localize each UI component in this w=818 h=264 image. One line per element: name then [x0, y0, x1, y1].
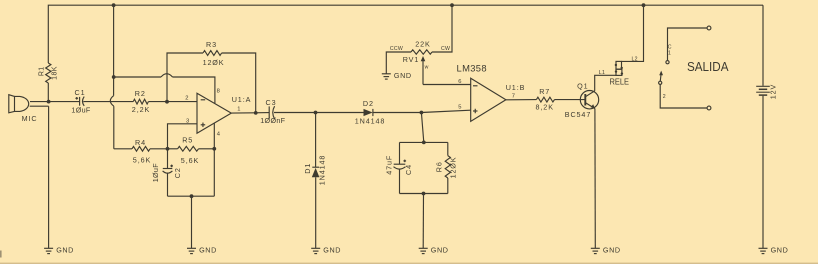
svg-text:MIC: MIC — [22, 114, 38, 123]
resistor R5 5,6K — [168, 136, 215, 165]
svg-text:D1: D1 — [303, 163, 312, 174]
transistor Q1 BC547 — [565, 81, 599, 118]
ground (filter) — [419, 246, 449, 255]
svg-text:R1: R1 — [38, 66, 45, 76]
node top rail at relay — [642, 3, 646, 7]
svg-text:C2: C2 — [173, 167, 182, 178]
svg-text:8: 8 — [217, 88, 220, 94]
svg-text:12ØK: 12ØK — [448, 157, 457, 179]
battery 12V — [756, 84, 777, 100]
svg-text:BC547: BC547 — [565, 110, 591, 119]
svg-text:12ØK: 12ØK — [203, 58, 225, 67]
svg-text:GND: GND — [603, 246, 621, 255]
wire op-amp B output to R7 — [506, 99, 537, 101]
node V+ drop / pin8 branch — [112, 75, 116, 79]
wire battery to ground — [762, 96, 764, 249]
svg-text:CCW: CCW — [390, 46, 403, 52]
svg-text:2,2K: 2,2K — [132, 105, 150, 114]
svg-text:3: 3 — [186, 119, 189, 125]
microphone MIC — [9, 95, 49, 123]
svg-text:22K: 22K — [415, 40, 431, 49]
wire emitter to ground — [594, 109, 596, 249]
svg-text:5,6K: 5,6K — [133, 156, 151, 165]
node top rail at V+ drop — [112, 3, 116, 7]
svg-text:RELE: RELE — [610, 78, 630, 87]
svg-text:GND: GND — [771, 246, 789, 255]
svg-text:R7: R7 — [539, 87, 550, 96]
potentiometer RV1 22K — [390, 40, 450, 85]
svg-text:GND: GND — [56, 246, 74, 255]
svg-text:C1: C1 — [75, 88, 86, 97]
svg-text:w: w — [425, 65, 429, 71]
svg-text:C3: C3 — [266, 98, 277, 107]
svg-text:12V: 12V — [769, 84, 778, 100]
node R4 / R5 / C2 / pin 3 junction — [166, 147, 170, 151]
capacitor C1 10uF — [49, 88, 134, 114]
svg-text:GND: GND — [431, 246, 449, 255]
svg-text:R5: R5 — [182, 136, 193, 145]
ground (battery) — [759, 246, 789, 255]
node C3 / D1 / D2 junction — [314, 111, 318, 115]
capacitor C2 10uF — [151, 149, 182, 196]
wire pin 8 supply with hop over R3 leg — [114, 74, 220, 104]
wire op-amp A output — [231, 112, 269, 115]
svg-text:R2: R2 — [135, 89, 146, 98]
capacitor C4 47uF — [384, 142, 413, 193]
svg-text:1ØuF: 1ØuF — [151, 163, 160, 182]
wire loop right leg — [213, 149, 215, 196]
op-amp U1:B LM358 — [457, 62, 526, 121]
resistor R1 18K — [38, 63, 58, 83]
svg-text:RV1: RV1 — [403, 55, 420, 64]
svg-text:L2: L2 — [632, 57, 638, 63]
node R5 / pin4 / loop junction — [212, 147, 216, 151]
relay coil RELE — [610, 61, 630, 86]
scan left edge mark — [0, 251, 2, 258]
svg-text:5,6K: 5,6K — [181, 156, 199, 165]
svg-text:GND: GND — [199, 246, 217, 255]
svg-text:D2: D2 — [363, 99, 374, 108]
wire non-inverting input pin 3 — [168, 119, 198, 149]
resistor R2 2,2K — [132, 89, 167, 114]
ground (C2 loop) — [187, 246, 217, 255]
svg-text:7: 7 — [512, 93, 515, 99]
wire wiper to inverting input pin 6 — [423, 79, 471, 85]
svg-text:SALIDA: SALIDA — [687, 59, 729, 74]
svg-text:LM358: LM358 — [457, 62, 487, 73]
svg-text:2: 2 — [663, 94, 666, 100]
svg-text:1N4148: 1N4148 — [355, 117, 386, 126]
wire RV1 CCW to ground — [386, 52, 411, 74]
svg-text:18K: 18K — [51, 66, 58, 80]
svg-text:1ØuF: 1ØuF — [71, 106, 90, 115]
wire relay coil L2 to supply rail — [622, 5, 644, 62]
svg-text:R4: R4 — [135, 138, 146, 147]
node loop bottom ground tap — [190, 194, 194, 198]
svg-text:8,2K: 8,2K — [536, 103, 554, 112]
wire RV1 CW to supply rail — [432, 5, 452, 52]
node D2 / pin5 / filter junction — [420, 111, 424, 115]
diode D1 1N4148 — [303, 113, 326, 249]
svg-text:5: 5 — [458, 105, 461, 111]
diode D2 1N4148 — [316, 99, 422, 125]
wire filter to ground — [422, 194, 424, 249]
node MIC / R1 / C1 junction — [47, 100, 51, 104]
wire V+ drop from rail with hop over C1 wire — [110, 5, 114, 149]
node output / R3 junction — [254, 111, 258, 115]
resistor R6 120K — [435, 142, 458, 193]
wire right rail to battery — [762, 5, 764, 86]
wire collector to relay coil L1 — [595, 70, 616, 91]
resistor R3 120K — [203, 40, 225, 67]
svg-text:1N4148: 1N4148 — [317, 155, 326, 186]
node top rail at RV1 — [450, 3, 454, 7]
svg-text:2: 2 — [185, 96, 188, 102]
capacitor C3 100nF — [260, 98, 315, 125]
ground (RV1) — [382, 71, 412, 80]
svg-text:R3: R3 — [206, 40, 217, 49]
wire inverting input pin 2 — [167, 96, 197, 102]
ground (D1) — [311, 246, 341, 255]
wire loop bottom — [168, 195, 215, 197]
svg-text:1: 1 — [668, 50, 671, 56]
wire R7 to Q1 base — [555, 99, 586, 101]
wire loop to ground — [191, 196, 193, 248]
label SALIDA output — [687, 59, 729, 74]
svg-text:GND: GND — [394, 71, 412, 80]
ground (Q1 emitter) — [591, 246, 621, 255]
wire filter top bar — [400, 141, 448, 143]
node filter bottom ground tap — [422, 192, 426, 196]
relay contact arm — [659, 71, 663, 85]
svg-text:Q1: Q1 — [577, 81, 588, 90]
wire R3 right leg — [222, 53, 256, 113]
svg-text:C4: C4 — [404, 164, 413, 175]
svg-text:L1: L1 — [599, 70, 605, 76]
wire to non-inverting input pin 5 — [421, 105, 470, 113]
svg-text:U1:B: U1:B — [506, 83, 526, 92]
ground (MIC) — [44, 246, 74, 255]
svg-text:R6: R6 — [435, 161, 444, 172]
wire MIC negative terminal to ground — [48, 106, 50, 248]
svg-text:GND: GND — [323, 246, 341, 255]
scan bottom edge shading — [0, 263, 818, 264]
wire R4 feed from V+ drop — [114, 148, 132, 150]
svg-text:1ØØnF: 1ØØnF — [260, 116, 285, 125]
relay contact terminal 2 — [660, 84, 711, 110]
op-amp U1:A — [197, 93, 251, 133]
wire filter bottom bar — [400, 193, 448, 195]
svg-text:CW: CW — [441, 46, 450, 52]
svg-text:U1:A: U1:A — [232, 95, 252, 104]
svg-text:47uF: 47uF — [384, 155, 393, 175]
resistor R4 5,6K — [132, 138, 168, 165]
node filter top — [422, 141, 426, 145]
wire filter feed — [421, 113, 423, 143]
node R2 / R3 / pin 2 junction — [165, 100, 169, 104]
svg-text:6: 6 — [458, 79, 461, 85]
resistor R7 8,2K — [536, 87, 555, 112]
wire top supply rail — [48, 5, 763, 102]
svg-text:1: 1 — [237, 106, 240, 112]
wire pin 4 — [214, 123, 221, 149]
relay contact common terminal C — [666, 26, 711, 64]
wire R3 left leg — [167, 53, 203, 102]
